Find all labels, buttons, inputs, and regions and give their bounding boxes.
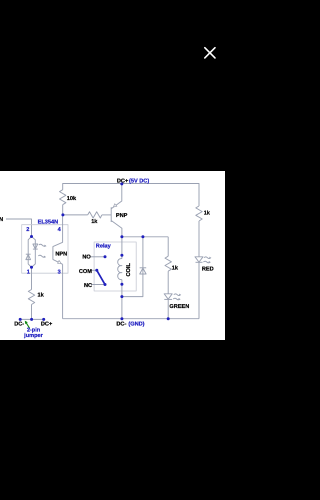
node NC contact: [104, 283, 107, 286]
LED green arrow 2: [173, 298, 180, 300]
opto phototransistor NPN: [53, 215, 63, 264]
wire green resistor to LED: [167, 271, 169, 294]
svg-text:COIL: COIL: [126, 263, 132, 277]
diode D1 triangle: [140, 268, 146, 274]
wire opto pin1 down: [31, 267, 33, 289]
node jumper left: [19, 318, 22, 321]
svg-text:RED: RED: [202, 267, 214, 273]
LED red bar: [196, 261, 203, 263]
node collector row diode: [141, 235, 144, 238]
svg-text:DC-: DC-: [14, 321, 24, 327]
relay switch arm COM-NC: [97, 270, 105, 284]
svg-text:1: 1: [27, 269, 30, 275]
wire collector node row: [122, 236, 168, 238]
node coil bottom: [120, 283, 123, 286]
svg-text:COM: COM: [79, 269, 92, 275]
svg-text:NPN: NPN: [55, 252, 67, 258]
LED green triangle: [164, 294, 172, 299]
svg-text:NO: NO: [82, 255, 91, 261]
wire red resistor to LED: [198, 221, 200, 257]
svg-text:GREEN: GREEN: [169, 304, 189, 310]
wire red LED to GND: [198, 262, 200, 318]
LED red arrow 2: [203, 261, 210, 263]
LED red triangle: [195, 257, 203, 262]
resistor 1k base: [88, 212, 102, 218]
PNP emitter arrow: [114, 204, 117, 207]
svg-text:3: 3: [58, 269, 61, 275]
svg-text:1k: 1k: [172, 264, 179, 271]
opto light arrow 1: [39, 244, 46, 246]
node jumper mid: [30, 318, 33, 321]
svg-text:Relay: Relay: [96, 243, 112, 250]
svg-text:IN: IN: [0, 217, 3, 223]
wire IN to optocoupler pin 2: [6, 219, 32, 237]
node collector row left: [120, 235, 123, 238]
svg-text:EL354N: EL354N: [38, 219, 59, 225]
node DC+ top: [120, 182, 123, 185]
jumper arrow: [26, 323, 30, 329]
node coil top: [120, 254, 123, 257]
node opto pin2: [30, 235, 33, 238]
LED red arrow 1: [204, 257, 211, 259]
node green GND: [167, 317, 170, 320]
transistor Q1 PNP: [111, 184, 122, 237]
opto NPN emitter arrow: [58, 260, 61, 263]
svg-text:jumper: jumper: [23, 332, 43, 339]
diode D1 flyback wire: [122, 237, 143, 297]
opto diode D-left bar: [26, 253, 31, 255]
wire NO stub: [90, 256, 104, 258]
svg-text:1k: 1k: [91, 218, 98, 225]
svg-text:DC+: DC+: [41, 321, 53, 327]
wire COM stub: [91, 269, 96, 271]
svg-text:1k: 1k: [204, 210, 211, 217]
inductor relay coil: [118, 259, 122, 280]
diode D1 bar: [140, 267, 147, 269]
optocoupler box U1: [22, 225, 68, 274]
node jumper right: [42, 318, 45, 321]
opto diode D-right bar: [33, 248, 38, 250]
wire green LED to GND: [167, 299, 169, 318]
resistor 1k green: [165, 256, 171, 271]
wire DC+ rail: [63, 184, 199, 207]
bottom black bar: [0, 340, 225, 500]
wire 1k to jumper: [31, 305, 33, 320]
LED green arrow 1: [174, 294, 181, 296]
wire coil top: [121, 237, 123, 259]
resistor 10k: [60, 190, 66, 205]
svg-text:(5V DC): (5V DC): [129, 178, 149, 185]
opto light arrow 2: [38, 255, 45, 257]
resistor 1k opto bottom: [28, 290, 34, 305]
wire coil bottom to GND: [121, 280, 123, 319]
close button X: [205, 48, 215, 58]
svg-text:PNP: PNP: [116, 213, 128, 219]
opto diode D-right triangle: [33, 244, 38, 249]
wire opto emitter down to GND rail: [62, 264, 64, 318]
wire base resistor to PNP base: [102, 214, 111, 216]
opto LED branch left: [28, 237, 31, 268]
LED green bar: [164, 298, 172, 300]
svg-text:NC: NC: [84, 283, 92, 289]
relay box K1: [94, 242, 136, 291]
junction dots: [19, 182, 170, 321]
svg-text:(GND): (GND): [128, 320, 144, 327]
node opto pin1: [30, 266, 33, 269]
node 10k/base/pin4: [61, 213, 64, 216]
wire 10k bottom to node: [62, 205, 64, 215]
labels: [0, 178, 214, 339]
wire NC stub: [91, 284, 104, 286]
svg-text:10k: 10k: [67, 195, 77, 202]
white schematic background: [0, 171, 225, 340]
node coil GND: [120, 317, 123, 320]
wire green branch top: [167, 237, 169, 256]
node coil diode junction: [120, 295, 123, 298]
opto diode D-left triangle: [26, 254, 31, 259]
svg-text:DC-: DC-: [116, 321, 126, 327]
svg-text:2: 2: [26, 227, 29, 233]
wire node to base resistor: [63, 214, 88, 216]
wire GND rail: [63, 318, 199, 320]
wire jumper bar: [19, 318, 45, 320]
svg-text:1k: 1k: [38, 292, 45, 299]
top black bar: [0, 0, 225, 171]
node NO contact: [104, 255, 107, 258]
opto LED branch right: [32, 237, 36, 268]
resistor 1k red: [196, 206, 202, 221]
svg-text:DC+: DC+: [117, 179, 129, 185]
node COM contact: [95, 269, 98, 272]
